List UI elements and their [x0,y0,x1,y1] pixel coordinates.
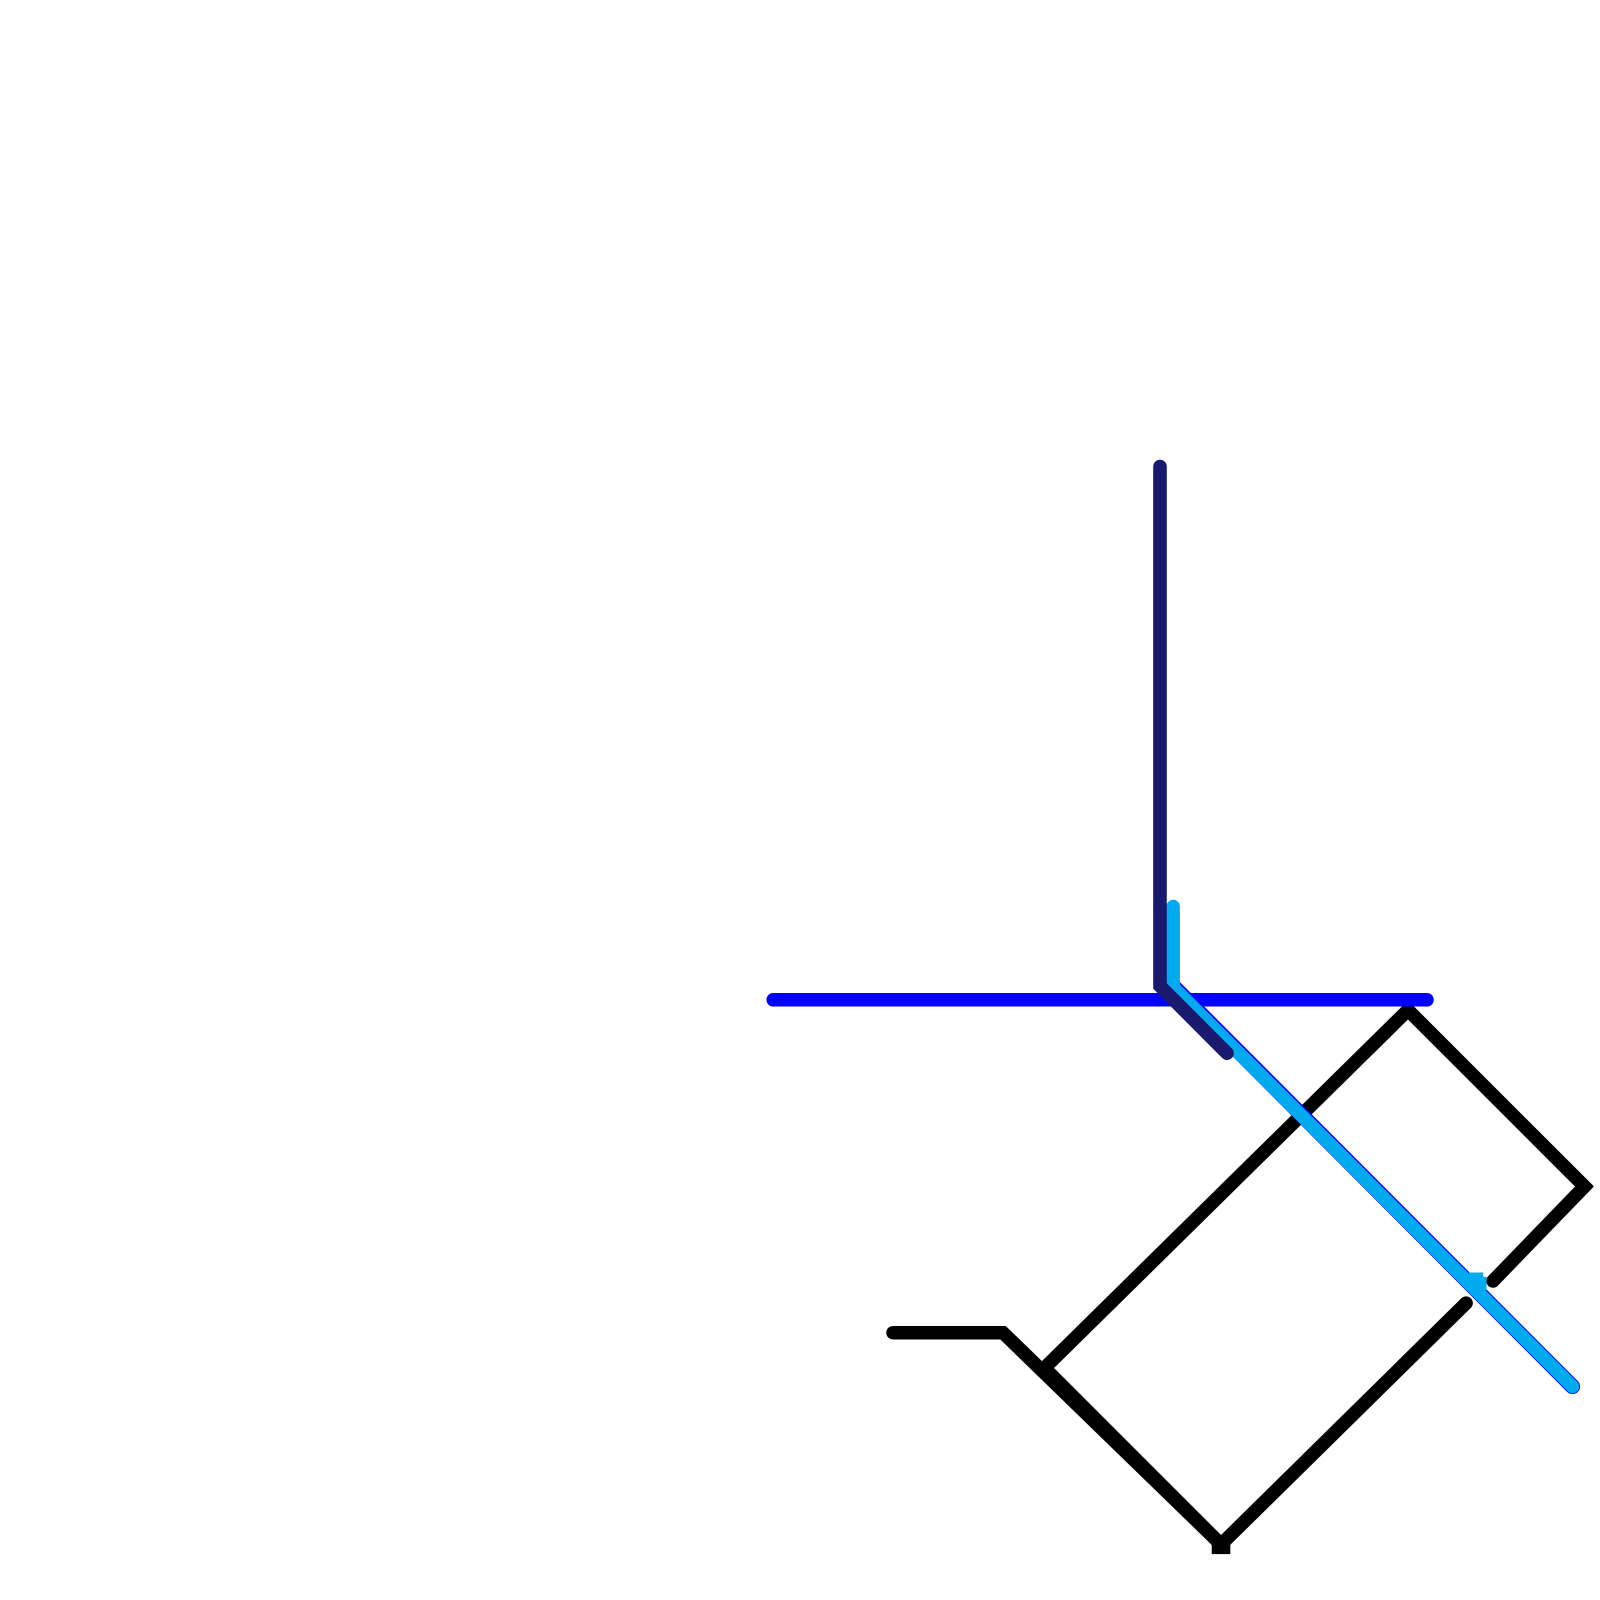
wire W2 horizontal (blue) [773,993,1427,1007]
wire W4 black lead (horizontal then diagonal to node B) [893,1333,1221,1545]
resistor R1 body (rotated rectangle, black) [1045,1010,1585,1545]
wire W1 (midnightblue) [1160,467,1227,1054]
wire W3 (cyan) [1173,907,1572,1387]
node B terminal (black corner pad) [1216,1545,1226,1550]
junction dot (cyan square) [1469,1273,1487,1291]
wire W3 underlay (blue outline under cyan diagonal) [1174,987,1573,1387]
